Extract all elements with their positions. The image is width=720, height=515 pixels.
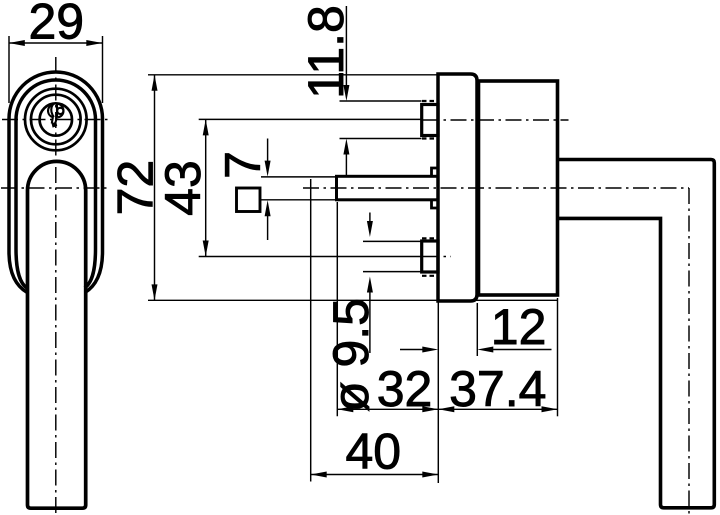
dimension 72 extension line top [148,74,438,76]
screw hole hidden lines bottom [422,237,439,239]
dimension 11.8 extension lines [340,100,422,102]
rosette plate (side view) [438,74,477,301]
dimension 40 extension line [310,179,312,482]
dimension 29 extension lines [8,36,10,103]
dimension 11.8 arrows (outside) [345,6,347,89]
spindle collar top [432,168,439,176]
dimension 12 arrows (outside) [400,349,424,351]
dimension 12 extension lines [437,302,439,483]
dimension 32 extension line [336,202,338,416]
dimension 43 extension lines [199,118,422,120]
dimension 43 line [205,119,207,256]
centerline vertical (front view) [55,57,57,514]
centerline top screw [423,119,569,121]
lock rosette circle outer [25,89,87,151]
dimension 72 line [154,75,156,301]
svg-text:7: 7 [215,151,271,179]
centerline handle axis horizontal [303,187,689,189]
dimension 72 extension line bottom (long) [148,299,558,301]
svg-text:29: 29 [28,0,84,49]
handle lever (side view, L-shape) [558,160,715,508]
escutcheon inner contour [16,80,96,288]
lock rosette circle middle [31,95,81,145]
dimension 40 line [311,474,439,476]
square symbol [237,188,261,212]
centerline horizontal through lock [2,119,110,121]
keyway profile [48,103,63,124]
dimension ø9.5 extension lines [363,240,422,242]
handle body block (side view) [479,81,558,295]
dimension 7 arrows (outside) [267,139,269,164]
lock cylinder circle [40,103,72,135]
centerline lever vertical [688,188,690,515]
screw head top [422,105,438,136]
spindle collar bottom [432,200,439,208]
screw head bottom [422,241,438,272]
escutcheon outer contour [9,72,103,293]
centerline bottom screw [423,256,451,258]
svg-text:11.8: 11.8 [298,5,354,99]
dimension 29 line [9,42,103,44]
screw hole hidden lines top [422,100,439,102]
dimension 32/37.4 line [337,408,557,410]
svg-text:12: 12 [491,299,547,355]
spindle (square shaft, side view) [337,176,439,200]
dimension 7 extension lines (also spindle phantom lines) [261,176,337,178]
handle lever with neck arch (front view) [28,161,86,508]
dimension ø9.5 arrows (outside) [369,213,371,225]
dimension 37.4 extension line [557,298,559,416]
svg-text:43: 43 [155,160,211,216]
svg-text:40: 40 [345,424,401,480]
centerline horizontal handle axis (front view) [1,187,111,189]
